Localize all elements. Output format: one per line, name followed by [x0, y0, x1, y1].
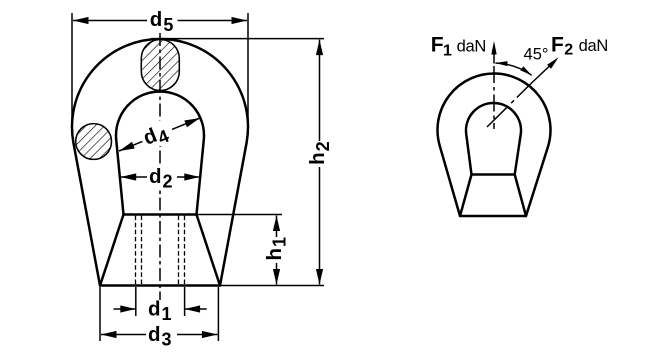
- h1 top extension line: [197, 214, 283, 216]
- 45 degree angle arc: [495, 63, 531, 75]
- vertical centerline (right view): [493, 66, 495, 129]
- 45 degree centerline: [487, 84, 531, 128]
- ring nut body outline (load diagram view): [437, 74, 550, 216]
- dimension d1 extension lines: [135, 287, 137, 316]
- hidden thread lines: [135, 216, 137, 285]
- ring nut body outline (front view): [72, 39, 248, 286]
- svg-text:2: 2: [564, 42, 573, 59]
- dimension d5 line: [73, 20, 247, 22]
- conical base edges: [100, 215, 220, 286]
- svg-text:45°: 45°: [524, 46, 549, 64]
- dimension d4 line (diagonal): [119, 118, 200, 151]
- waist line: [124, 213, 197, 216]
- svg-text:daN: daN: [457, 37, 486, 55]
- conical base edges (right view): [460, 175, 526, 217]
- svg-text:daN: daN: [579, 37, 608, 55]
- vertical centerline: [159, 33, 161, 300]
- dimension d3 line: [101, 334, 217, 336]
- inner eye hole (right view): [466, 103, 521, 175]
- waist line (right view): [472, 173, 515, 176]
- inner eye hole: [116, 91, 204, 214]
- label d5: [147, 9, 178, 32]
- dimension h1 line: [276, 216, 278, 285]
- dimension d1 arrows: [114, 308, 136, 310]
- hatched ring cross-section (top): [141, 40, 179, 91]
- label h2 (rotated): [305, 141, 327, 167]
- label h1 (rotated): [262, 237, 284, 263]
- svg-text:1: 1: [443, 43, 452, 60]
- svg-text:F: F: [431, 34, 444, 57]
- dimension h2 line: [319, 40, 321, 285]
- label d2: [147, 166, 177, 188]
- force arrow F1: [493, 46, 495, 64]
- force arrow F2: [531, 61, 555, 84]
- dimension d2 line: [121, 176, 200, 178]
- dimension h2 extension lines: [151, 38, 324, 40]
- dimension d3 extension lines: [99, 287, 101, 341]
- hatched ring cross-section (left): [76, 124, 112, 160]
- label d4 (rotated): [137, 117, 177, 154]
- svg-text:F: F: [551, 33, 564, 56]
- dimension d5 extension lines: [71, 13, 73, 127]
- label d3: [146, 323, 177, 346]
